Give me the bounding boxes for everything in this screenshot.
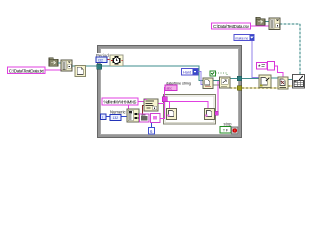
svg-text:I32: I32 [98, 58, 103, 62]
svg-text:make ne: make ne [235, 36, 248, 40]
svg-text:C:\Data\TestData.txt: C:\Data\TestData.txt [9, 68, 45, 73]
svg-text:Hard: Hard [183, 70, 191, 74]
svg-text:stop: stop [224, 122, 233, 127]
svg-text:abc: abc [167, 87, 173, 91]
svg-text:i: i [102, 115, 103, 119]
svg-text:%d/%m/%Y %H:%M:%S: %d/%m/%Y %H:%M:%S [104, 100, 137, 105]
svg-text:C:\Data\TestData.csv: C:\Data\TestData.csv [213, 24, 250, 29]
svg-text:132: 132 [113, 116, 119, 120]
svg-text:Numeric: Numeric [110, 109, 126, 114]
